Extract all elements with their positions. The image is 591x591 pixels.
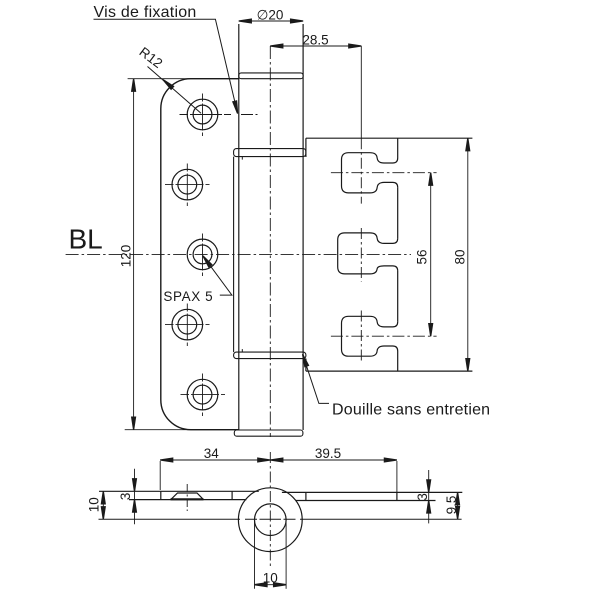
svg-text:56: 56 <box>414 249 429 264</box>
frame leaf bottom edge <box>306 370 473 372</box>
leader Vis de fixation <box>94 19 238 113</box>
barrel axis centerline <box>269 46 271 437</box>
barrel top cap <box>239 73 303 79</box>
dimension 9.5 <box>457 492 459 519</box>
left plate end tick <box>231 491 233 499</box>
left plate top line <box>99 490 259 492</box>
barrel circle outer <box>238 488 302 552</box>
hole 1 <box>187 99 218 130</box>
barrel left edge <box>238 24 240 430</box>
pin circle inner <box>254 504 286 536</box>
cutout axis horizontal top <box>331 172 437 174</box>
dimension 56 <box>430 173 432 337</box>
svg-text:34: 34 <box>204 446 220 461</box>
dimension 3 left <box>134 469 136 525</box>
countersunk screw <box>171 493 203 499</box>
left plate left end <box>160 491 162 499</box>
leader Douille sans entretien <box>303 354 329 403</box>
dimension 10 left <box>102 491 104 519</box>
leader SPAX 5 <box>203 256 232 295</box>
svg-text:120: 120 <box>119 245 134 268</box>
svg-text:10: 10 <box>87 497 102 512</box>
cutout 3 (bottom) <box>342 316 398 356</box>
frame leaf top edge <box>306 137 473 139</box>
right plate end <box>396 492 398 500</box>
svg-text:∅20: ∅20 <box>257 7 284 22</box>
top collar bushing <box>234 149 306 157</box>
svg-text:39.5: 39.5 <box>315 446 341 461</box>
dimension 28.5 <box>270 46 361 138</box>
hole 2 <box>172 169 203 200</box>
left plate bottom line <box>129 499 246 501</box>
left edge between collars <box>233 157 235 353</box>
hole 4 <box>172 309 203 340</box>
right plate end tick <box>305 492 307 500</box>
screw centerline <box>186 484 188 511</box>
svg-text:28.5: 28.5 <box>302 33 328 48</box>
frame leaf left edge upper <box>305 138 307 157</box>
BL centerline <box>66 253 411 255</box>
dimension 80 <box>467 138 469 371</box>
svg-text:R12: R12 <box>136 44 165 71</box>
door leaf plate outline <box>161 79 239 430</box>
svg-text:9.5: 9.5 <box>444 496 459 515</box>
pin tangent extension lines <box>254 520 256 589</box>
frame leaf right edge segments <box>397 138 399 371</box>
right plate top line <box>282 491 462 493</box>
svg-text:BL: BL <box>69 224 103 255</box>
cutout axis horizontal bottom <box>331 335 437 337</box>
barrel right edge <box>302 24 304 430</box>
knuckle stub top <box>241 157 243 160</box>
cutout 2 (middle) <box>338 233 398 274</box>
hole 3 <box>187 239 218 270</box>
svg-text:Vis de fixation: Vis de fixation <box>94 4 197 21</box>
dimension 10 bottom <box>255 584 287 586</box>
dimension 34 / 39.5 <box>160 460 397 492</box>
dimension 3 right <box>428 470 430 523</box>
svg-text:3: 3 <box>118 493 133 501</box>
barrel bottom cap <box>234 430 303 436</box>
svg-text:3: 3 <box>415 493 430 501</box>
svg-text:10: 10 <box>263 571 278 586</box>
hole crosshairs <box>165 94 258 417</box>
hole 5 <box>187 379 218 410</box>
dimension d20 <box>239 20 303 22</box>
svg-text:Douille sans entretien: Douille sans entretien <box>332 402 490 419</box>
cutout axis vertical <box>360 138 362 203</box>
knuckle stub bottom <box>241 349 243 352</box>
svg-text:80: 80 <box>453 249 468 264</box>
cutout 1 (top) <box>342 153 398 193</box>
frame leaf left edge lower <box>305 359 307 372</box>
door surface line <box>99 518 462 520</box>
bottom collar bushing <box>234 352 306 359</box>
dimension 120 <box>125 79 239 430</box>
circle vertical centerline <box>269 452 271 568</box>
right plate bottom line <box>296 500 436 502</box>
svg-text:SPAX 5: SPAX 5 <box>163 289 213 304</box>
leader R12 <box>148 67 202 114</box>
